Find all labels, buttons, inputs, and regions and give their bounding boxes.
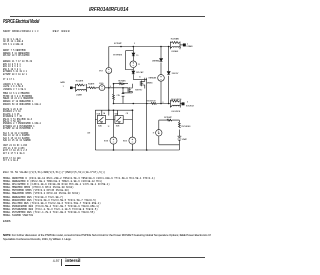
svg-text:LDRAIN: LDRAIN	[171, 50, 178, 53]
svg-text:RLGATE: RLGATE	[76, 80, 84, 83]
svg-text:RLSOURCE: RLSOURCE	[171, 99, 182, 101]
svg-text:DBREAK: DBREAK	[152, 60, 160, 63]
svg-text:MMED: MMED	[147, 83, 153, 85]
svg-text:13: 13	[108, 126, 110, 128]
svg-text:MSTRO: MSTRO	[135, 90, 142, 92]
svg-text:3: 3	[187, 102, 189, 104]
svg-text:EVT: EVT	[99, 71, 103, 73]
svg-text:1: 1	[63, 86, 65, 88]
svg-text:S2A: S2A	[98, 125, 102, 128]
svg-text:DPLCAP: DPLCAP	[136, 71, 144, 74]
svg-text:CA: CA	[103, 112, 106, 115]
svg-text:LGATE: LGATE	[76, 93, 83, 96]
svg-text:RVTHRES: RVTHRES	[182, 126, 192, 128]
svg-text:5: 5	[134, 43, 136, 45]
svg-text:RSOURCE: RSOURCE	[146, 100, 156, 102]
svg-text:DBODY: DBODY	[172, 73, 179, 75]
svg-text:S2B: S2B	[116, 126, 120, 128]
svg-text:EVTEMP: EVTEMP	[114, 43, 122, 45]
svg-text:IT: IT	[153, 133, 155, 135]
svg-text:ESG: ESG	[99, 83, 103, 85]
svg-text:RVTEMP: RVTEMP	[164, 117, 172, 119]
svg-text:CB: CB	[126, 113, 128, 115]
svg-text:EBREAK: EBREAK	[149, 77, 157, 80]
svg-text:VBAT: VBAT	[182, 138, 188, 141]
svg-text:LSOURCE: LSOURCE	[171, 111, 181, 113]
svg-text:GATE: GATE	[60, 81, 66, 84]
svg-text:19: 19	[136, 55, 139, 57]
svg-text:DRAIN: DRAIN	[187, 45, 193, 48]
svg-text:CIN: CIN	[87, 132, 91, 134]
svg-text:21: 21	[138, 64, 141, 66]
svg-text:EVTHRES: EVTHRES	[113, 55, 123, 57]
svg-text:RGATE: RGATE	[88, 83, 95, 86]
svg-text:SOURCE: SOURCE	[186, 105, 195, 107]
svg-text:EDS: EDS	[123, 141, 128, 143]
svg-text:EGS: EGS	[104, 141, 109, 143]
svg-text:16: 16	[139, 76, 141, 78]
svg-text:RLDRAIN: RLDRAIN	[171, 38, 180, 41]
svg-text:RDRAIN: RDRAIN	[118, 80, 126, 83]
svg-text:CIN: CIN	[117, 95, 121, 97]
